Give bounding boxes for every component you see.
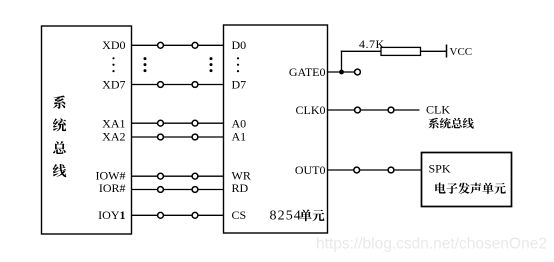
wire XD7-D7 [132,84,224,86]
connector circles on XA1-A0 [158,120,164,126]
svg-text:XD7: XD7 [102,77,125,91]
svg-text:A1: A1 [232,130,247,144]
connector circles on IOY1-CS [158,212,164,218]
wire CLK0 [328,109,420,111]
resistor R1 body [381,47,421,55]
connector circles on IOR-RD [158,187,164,193]
connector circles on XD7-D7 [158,82,164,88]
label 电子发声单元 [435,183,505,194]
wire IOY1-CS [132,214,224,216]
svg-text:D0: D0 [232,38,247,52]
wire XA1-A0 [132,122,224,124]
speaker unit box (电子发声单元) [422,153,512,207]
wire to VCC (horizontal) [341,50,447,52]
bus ellipsis dots (left column) [144,57,147,60]
label 系统总线 (vertical) [53,96,66,178]
bus ellipsis dots (right column) [210,57,213,60]
connector circles on CLK0 [355,107,361,113]
svg-text:XD0: XD0 [102,38,125,52]
connector circles on XD0-D0 [158,42,164,48]
svg-text:XA1: XA1 [102,116,125,130]
svg-text:SPK: SPK [429,161,451,175]
svg-text:CS: CS [232,208,247,222]
connector circles on XA2-A1 [158,134,164,140]
svg-text:VCC: VCC [450,46,473,58]
wire GATE0 [328,71,355,73]
connector circles on IOW-WR [158,173,164,179]
wire OUT0 [328,169,422,171]
VCC terminal tick [446,45,448,58]
svg-text:CLK: CLK [426,103,450,117]
svg-text:RD: RD [232,181,249,195]
wire IOR-RD [132,189,224,191]
wire XA2-A1 [132,136,224,138]
junction dot on GATE0 [339,70,344,75]
svg-text:IOR#: IOR# [99,181,126,195]
wire XD0-D0 [132,44,224,46]
svg-text:CLK0: CLK0 [296,103,326,117]
svg-text:D7: D7 [232,77,247,91]
ellipsis under XD0 [112,57,114,59]
system bus box [42,26,132,234]
svg-text:GATE0: GATE0 [289,65,326,79]
wire IOW-WR [132,175,224,177]
svg-text:8254: 8254 [270,209,302,224]
ellipsis under D0 [237,57,239,59]
svg-text:IOY1: IOY1 [98,208,125,222]
label 系统总线 (CLK source) [428,118,473,129]
svg-text:XA2: XA2 [102,130,125,144]
svg-text:4.7K: 4.7K [359,37,385,51]
8254 unit box U1 [224,25,328,233]
svg-text:A0: A0 [232,116,247,130]
connector circles on OUT0 [354,167,360,173]
wire junction to resistor (vertical) [341,51,343,72]
svg-text:OUT0: OUT0 [295,163,326,177]
connector circle GATE0 [355,69,361,75]
svg-text:https://blog.csdn.net/chosenOn: https://blog.csdn.net/chosenOne2 [316,236,547,253]
